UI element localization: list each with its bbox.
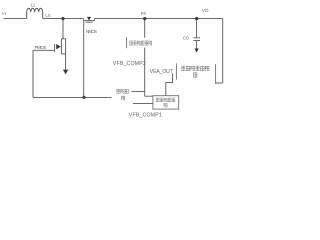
wire: P0 down upper segment [144,19,146,38]
wire: LX node down to PMOS drain [62,19,64,39]
transistor PMOS: gate plate [54,44,56,52]
node LX junction dot [61,17,64,20]
svg-text:VFB_COMP2: VFB_COMP2 [113,61,146,67]
text block: signal synthesis circuit line2 (1 cjk char) [164,103,167,107]
node P0 junction dot [143,17,146,20]
wire: PMOS source down to ground arrow [65,54,67,70]
svg-text:P0: P0 [141,11,147,16]
text block: signal synthesis circuit line1 (5 cjk chars) [156,98,175,102]
svg-text:VO: VO [202,8,209,13]
inductor L1 [27,8,43,18]
transistor PMOS: channel bar [60,39,62,54]
wire: capacitor C0 top lead [196,19,198,38]
wire: NMOS left terminal down to bottom rail [83,21,85,98]
transistor NMOS: right tick [94,19,96,21]
svg-text:PMOS: PMOS [35,45,47,50]
text block: feedback drive circuit line2 (1 cjk char) [193,72,197,77]
wire: PMOS gate to left rail [33,49,55,51]
transistor PMOS: top tick [61,38,65,40]
wire: left rail down to bottom rail [32,50,34,97]
wire: top rail NMOS to P0 to C0 to right end [95,18,223,20]
text block: comparison circuit line2 (1 cjk char) [121,96,125,100]
ground arrow under capacitor C0 [194,49,198,53]
node bottom rail junction dot [82,96,85,99]
node C0 junction dot [195,17,198,20]
transistor PMOS: bottom tick [61,53,65,55]
transistor NMOS: channel bar [84,20,95,22]
wire: VFB_COMP1 input to signal synthesis box [133,103,153,105]
text block: comparison circuit line1 (3 cjk chars) [116,89,128,94]
capacitor C0 plates [194,38,201,41]
wire: into feedback block right side [216,82,223,84]
text block: feedback drive circuit line1 (6 cjk chars) [181,66,209,71]
bottom rail wire [33,96,112,98]
signal synthesis box [153,96,179,109]
wire VI to inductor [4,18,27,20]
wire: into signal synthesis box [145,95,153,97]
wire: P0 down mid segment [144,48,146,97]
wire: capacitor C0 bottom lead [196,41,198,49]
svg-text:VFB_COMP1: VFB_COMP1 [129,113,162,119]
wire LX: inductor to NMOS source [43,18,84,20]
transistor PMOS: gate arrow [56,44,61,49]
wire: signal synthesis box up to VEA_OUT [166,73,173,95]
text block: second feedback circuit (6 cjk chars) [130,41,152,46]
transistor NMOS: left tick [83,19,85,21]
feedback drive block right bar [215,64,217,84]
svg-text:VI: VI [2,11,6,16]
ground arrow under PMOS [63,70,68,75]
wire: branch to comparison circuit [132,91,145,93]
svg-text:L1: L1 [31,2,36,7]
feedback drive block left bar [175,63,177,79]
transistor NMOS: gate plate [86,21,93,23]
transistor PMOS: right-side source/drain wire [65,39,67,54]
transistor NMOS: body arrow [87,17,91,21]
svg-text:C0: C0 [183,36,189,41]
svg-text:LX: LX [45,13,50,18]
second feedback block left bar [126,37,128,48]
svg-text:NMOS: NMOS [86,29,97,34]
wire: right end down to feedback block [222,19,224,83]
svg-text:VEA_OUT: VEA_OUT [150,69,173,75]
